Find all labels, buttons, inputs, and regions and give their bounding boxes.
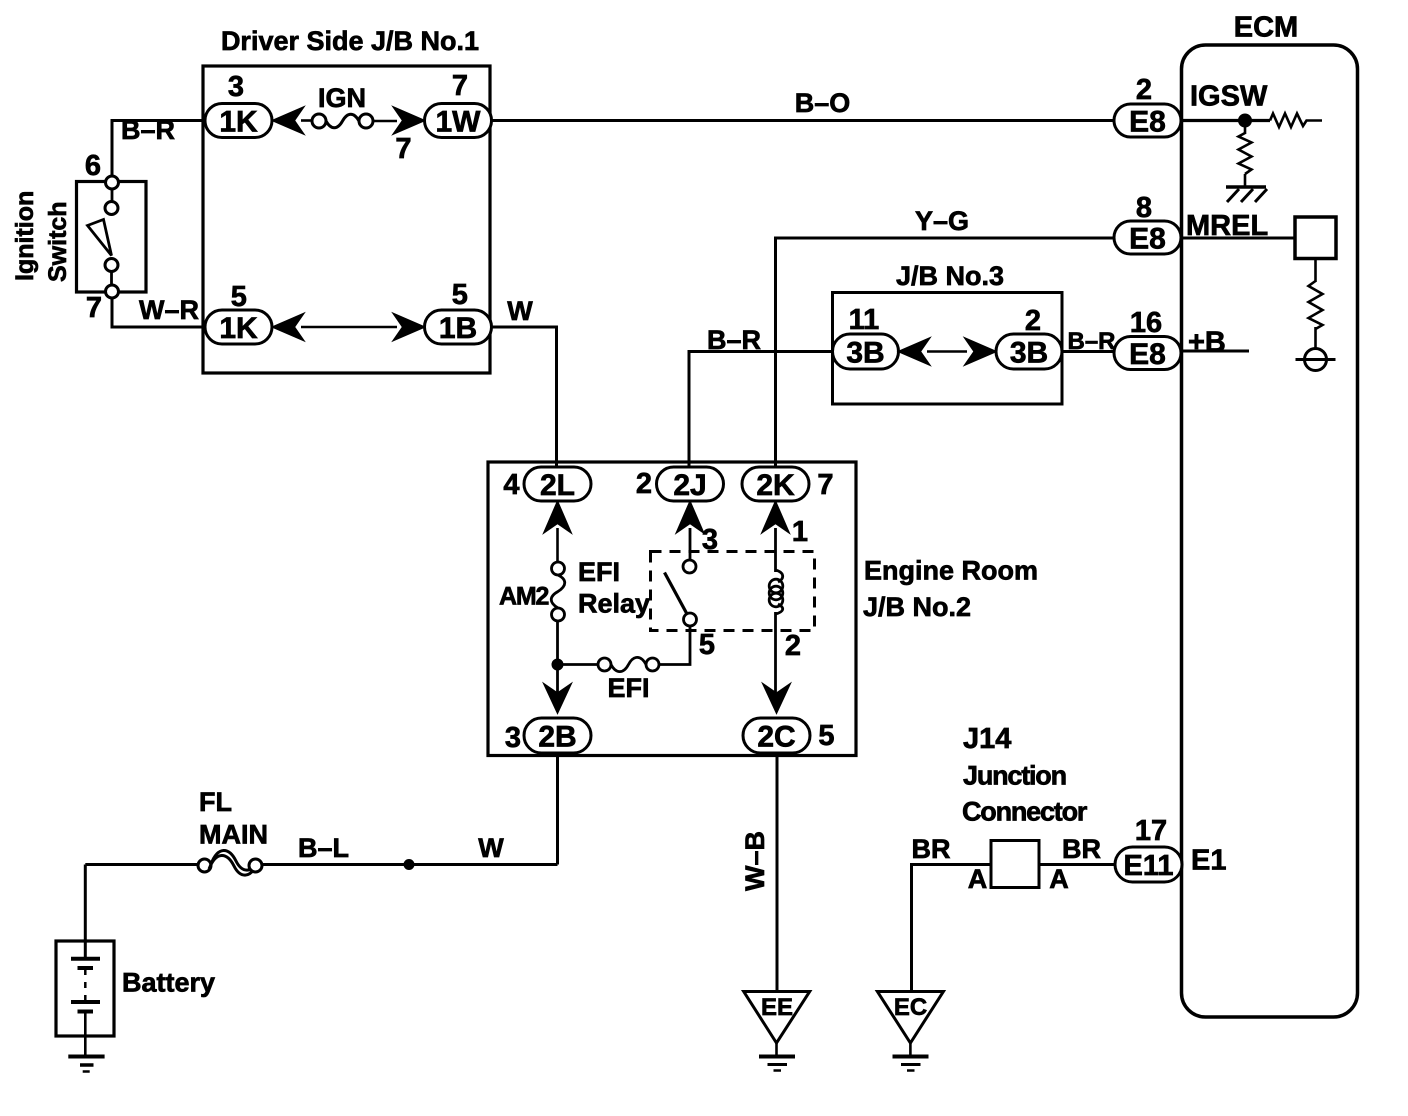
- ignition switch contact circle (pin 7): [106, 285, 119, 298]
- wire Y-G (2K to ECM E8 pin 8): [776, 238, 1115, 467]
- svg-text:E11: E11: [1124, 850, 1174, 882]
- svg-text:Battery: Battery: [122, 968, 215, 998]
- svg-text:11: 11: [849, 304, 880, 336]
- fuse EFI: [598, 658, 611, 671]
- svg-text:Driver Side J/B No.1: Driver Side J/B No.1: [221, 26, 479, 56]
- svg-text:BR: BR: [1062, 834, 1101, 864]
- wire (relay coil to 2C arrow): [774, 612, 777, 695]
- arrow into 1K (left dart): [273, 108, 303, 134]
- wire (1K arrow to IGN fuse): [301, 119, 313, 122]
- svg-text:5: 5: [452, 279, 468, 311]
- wire W (1B to Engine Room J/B 2L): [491, 327, 557, 467]
- svg-text:5: 5: [699, 629, 715, 661]
- svg-text:Switch: Switch: [44, 201, 72, 282]
- svg-text:5: 5: [231, 281, 247, 313]
- svg-text:Engine Room: Engine Room: [864, 556, 1038, 586]
- wire (battery feed down): [84, 865, 87, 958]
- wire (driver to resistor): [1314, 259, 1317, 283]
- wire (EC apex stub): [909, 1043, 912, 1055]
- arrow into 3B left (left dart): [899, 339, 929, 365]
- svg-text:2: 2: [1136, 74, 1152, 106]
- svg-text:Connector: Connector: [962, 797, 1088, 827]
- svg-text:7: 7: [86, 292, 102, 324]
- wire (junction to EFI fuse): [558, 663, 600, 666]
- connector 1B: [425, 310, 492, 344]
- svg-text:Y–G: Y–G: [915, 206, 969, 236]
- arrow into 1B (right dart): [394, 314, 424, 340]
- wire W (2B to battery line): [556, 753, 559, 865]
- svg-text:W: W: [507, 296, 533, 326]
- resistor (IGSW pull-up, horizontal): [1270, 114, 1322, 128]
- connector 2L: [524, 467, 591, 501]
- node (EFI fuse junction): [553, 660, 563, 670]
- wire W-B (2C to EE ground): [776, 753, 779, 992]
- wire (EFI fuse to relay contact pin 5): [659, 626, 690, 665]
- svg-text:1W: 1W: [436, 106, 482, 139]
- svg-text:B–R: B–R: [707, 325, 761, 355]
- svg-text:7: 7: [395, 133, 411, 165]
- connector 1K (bottom): [205, 310, 272, 344]
- connector 1W: [425, 104, 492, 138]
- relay contact circle (top, pin 3): [683, 560, 696, 573]
- fusible link FL MAIN: [198, 859, 211, 872]
- svg-text:1: 1: [792, 516, 808, 548]
- svg-text:2C: 2C: [757, 721, 795, 754]
- connector 3B (right): [996, 334, 1062, 369]
- fuse AM2: [552, 562, 565, 575]
- ground (battery): [68, 1055, 104, 1059]
- svg-text:2B: 2B: [538, 721, 576, 754]
- junction block J/B No.3 box: [833, 293, 1063, 405]
- svg-text:5: 5: [818, 720, 834, 752]
- arrow into 1K bottom (left dart): [273, 314, 303, 340]
- arrow from 2J (up dart): [677, 502, 703, 532]
- wire (resistor to ground circle): [1314, 327, 1317, 349]
- fuse IGN: [312, 114, 326, 128]
- wire BR (EC to J14): [912, 865, 992, 992]
- connector E11: [1115, 847, 1182, 882]
- wire (AM2 to 2B with junction): [556, 621, 559, 695]
- chassis ground (IGSW): [1226, 185, 1266, 188]
- svg-text:FL: FL: [199, 787, 232, 817]
- svg-text:J/B No.3: J/B No.3: [896, 261, 1004, 291]
- svg-text:6: 6: [85, 150, 101, 182]
- ignition switch contact circle (pin 6): [106, 176, 119, 189]
- arrow to 2B (down dart): [545, 685, 571, 713]
- wire (E8 pin2 internal): [1181, 119, 1270, 122]
- svg-text:B–L: B–L: [298, 833, 349, 863]
- node (splice on battery line): [405, 860, 414, 869]
- relay contact blade: [665, 573, 688, 615]
- ignition switch SW1 box: [77, 182, 147, 293]
- svg-text:E8: E8: [1129, 223, 1166, 256]
- svg-text:Ignition: Ignition: [11, 191, 39, 281]
- ground point EE triangle: [744, 992, 810, 1044]
- wire B-R (2J to 3B): [689, 352, 833, 468]
- junction block J/B No.1 box: [203, 66, 490, 373]
- svg-text:J/B No.2: J/B No.2: [863, 592, 971, 622]
- svg-text:16: 16: [1130, 307, 1162, 339]
- arrow to 2C (down dart): [764, 685, 790, 713]
- connector 3B (left): [833, 334, 899, 369]
- svg-text:ECM: ECM: [1234, 12, 1298, 44]
- battery B1 box: [56, 941, 114, 1036]
- svg-text:AM2: AM2: [499, 583, 548, 611]
- svg-text:1B: 1B: [439, 312, 477, 345]
- resistor (IGSW pull-down, vertical): [1239, 133, 1252, 174]
- svg-text:7: 7: [817, 469, 833, 501]
- connector 1K (top): [205, 104, 272, 138]
- wire (2L arrow to AM2 fuse): [556, 528, 559, 563]
- svg-text:3: 3: [505, 722, 521, 754]
- svg-text:IGSW: IGSW: [1190, 81, 1268, 113]
- ground (EE): [759, 1055, 795, 1059]
- svg-text:EE: EE: [761, 994, 793, 1021]
- ignition switch contact circle (lower): [105, 259, 118, 272]
- svg-text:+B: +B: [1188, 327, 1226, 359]
- ground circle (MREL): [1305, 349, 1327, 371]
- svg-text:1K: 1K: [219, 106, 258, 139]
- ground point EC triangle: [877, 992, 943, 1044]
- wire (switch internal bottom): [110, 271, 113, 286]
- wire (IGN fuse to 1W arrow): [373, 120, 397, 123]
- ignition switch blade: [88, 220, 112, 256]
- connector 2K: [742, 467, 809, 501]
- wire (E8 pin8 to relay driver): [1181, 237, 1295, 240]
- wire (+B internal): [1181, 350, 1249, 353]
- svg-text:E1: E1: [1191, 845, 1226, 877]
- svg-text:2J: 2J: [673, 469, 706, 502]
- svg-text:7: 7: [452, 70, 468, 102]
- svg-text:W: W: [478, 833, 504, 863]
- arrow from 2L (up dart): [545, 502, 571, 532]
- svg-text:A: A: [1049, 864, 1069, 894]
- svg-text:EC: EC: [894, 994, 927, 1021]
- arrow into 3B right (right dart): [966, 339, 996, 365]
- svg-text:2L: 2L: [540, 469, 575, 502]
- svg-text:EFI: EFI: [607, 673, 649, 703]
- ignition switch contact circle (upper): [105, 202, 118, 215]
- connector E8 (MREL): [1114, 221, 1181, 254]
- relay driver block U1: [1295, 217, 1336, 259]
- wire (to IGSW pull-down resistor): [1244, 126, 1247, 134]
- relay contact circle (bottom, pin 5): [684, 613, 697, 626]
- svg-text:3B: 3B: [846, 337, 884, 370]
- svg-text:B–R: B–R: [121, 115, 175, 145]
- svg-text:W–R: W–R: [139, 295, 199, 325]
- wire B-L / W (FL MAIN to 2B): [262, 863, 558, 866]
- relay EFI dashed box: [651, 552, 815, 631]
- svg-text:1K: 1K: [219, 312, 258, 345]
- wire (EE apex stub): [775, 1043, 778, 1055]
- svg-text:W–B: W–B: [740, 831, 770, 891]
- svg-text:E8: E8: [1129, 338, 1166, 371]
- svg-text:J14: J14: [963, 723, 1011, 755]
- wire (1K to 1B internal): [301, 326, 397, 329]
- wire (3B internal): [927, 350, 967, 353]
- wire B-R (ignition switch pin 6 to 1K): [112, 121, 203, 180]
- connector E8 (+B): [1114, 337, 1181, 370]
- arrow from 2K (up dart): [763, 502, 789, 532]
- svg-text:2: 2: [1025, 305, 1041, 337]
- svg-text:BR: BR: [912, 834, 951, 864]
- wire (2K arrow to relay coil): [774, 528, 777, 572]
- connector E8 (IGSW): [1114, 104, 1181, 137]
- svg-text:8: 8: [1136, 192, 1152, 224]
- ground (EC): [893, 1055, 929, 1059]
- svg-text:3: 3: [228, 71, 244, 103]
- svg-text:IGN: IGN: [318, 83, 366, 113]
- wire W-R (ignition switch pin 7 to 1K): [112, 297, 203, 327]
- wire (switch internal top): [111, 189, 114, 202]
- wire (2J arrow to relay contact pin 3): [689, 528, 692, 561]
- svg-text:B–R: B–R: [1067, 328, 1115, 355]
- svg-text:2K: 2K: [756, 469, 795, 502]
- relay coil L1: [776, 570, 783, 582]
- arrow into 1W (right dart): [394, 108, 424, 134]
- svg-text:2: 2: [636, 468, 652, 500]
- svg-text:3B: 3B: [1010, 337, 1048, 370]
- svg-text:A: A: [968, 864, 988, 894]
- svg-text:2: 2: [785, 630, 801, 662]
- svg-text:Junction: Junction: [963, 761, 1066, 791]
- svg-text:4: 4: [503, 469, 519, 501]
- wire B-O (1W to ECM E8 pin 2): [491, 119, 1114, 122]
- wire BR (J14 to E11): [1039, 863, 1116, 866]
- connector 2B: [524, 718, 591, 753]
- svg-text:Relay: Relay: [578, 589, 650, 619]
- wire (resistor to chassis ground): [1244, 174, 1247, 186]
- wire B-R (3B to E8 pin 16): [1062, 350, 1114, 353]
- svg-text:MAIN: MAIN: [199, 820, 268, 850]
- wire (battery to FL MAIN): [85, 863, 199, 866]
- svg-text:17: 17: [1135, 815, 1167, 847]
- node (IGSW junction): [1239, 115, 1251, 127]
- junction block Engine Room J/B No.2 box: [488, 462, 856, 756]
- svg-text:B–O: B–O: [795, 88, 851, 118]
- battery plates: [71, 957, 100, 961]
- junction connector J14 box: [991, 841, 1039, 888]
- ECM box: [1182, 45, 1358, 1017]
- connector 2C: [743, 718, 810, 753]
- svg-text:E8: E8: [1129, 106, 1166, 139]
- resistor (MREL, vertical): [1309, 281, 1323, 329]
- connector 2J: [657, 467, 724, 501]
- svg-text:EFI: EFI: [578, 557, 620, 587]
